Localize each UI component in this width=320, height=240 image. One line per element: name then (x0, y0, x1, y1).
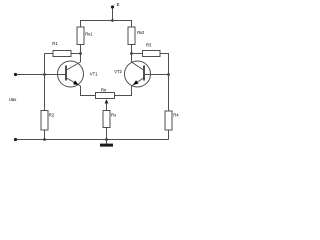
svg-text:R4: R4 (173, 113, 179, 118)
node: input / R1 / R2 junction (43, 73, 46, 76)
node: Rэ bottom junction (105, 138, 108, 141)
ground (100, 140, 113, 147)
svg-text:VT2: VT2 (114, 69, 122, 74)
power terminal -E (111, 2, 120, 8)
wire: top supply rail with corners down to Rk1 and Rk2 (81, 21, 132, 28)
common terminal bottom left (14, 138, 17, 141)
input terminal Uвх (9, 73, 17, 102)
wire: bottom common rail (17, 139, 169, 141)
svg-text:Rк2: Rк2 (137, 30, 145, 35)
svg-text:Rк1: Rк1 (85, 31, 93, 36)
resistor R3 (143, 42, 161, 56)
resistor R1 (52, 41, 71, 57)
wire: VT2 base to right node (145, 74, 169, 76)
node: VT1 collector / R1 junction (79, 52, 82, 55)
svg-text:VT1: VT1 (90, 71, 98, 76)
node: VT2 base / R4 junction (167, 73, 170, 76)
svg-text:Rп: Rп (101, 87, 106, 92)
wire: R4 bottom lead (168, 130, 170, 140)
resistor Rэ (103, 111, 116, 128)
wire: VT2 emitter down and left to Rп (115, 86, 132, 96)
wire: Rк1 bottom to VT1 collector (80, 45, 82, 63)
resistor Rк1 (77, 27, 93, 45)
transistor VT1 (58, 61, 99, 87)
svg-text:Rэ: Rэ (111, 112, 116, 117)
svg-text:R2: R2 (49, 112, 55, 117)
wire: VT1 emitter down and right to Rп (81, 86, 96, 96)
node: top rail junction (111, 19, 114, 22)
resistor Rк2 (128, 27, 145, 45)
svg-text:Uвх: Uвх (9, 97, 17, 102)
wire: R2 bottom lead (44, 130, 46, 140)
svg-text:R3: R3 (146, 42, 152, 47)
wire: Rэ bottom to ground rail (106, 128, 108, 140)
wire: R3 right lead with corner down to R4 (160, 54, 169, 112)
wire: R1 right lead to collector node (71, 53, 81, 55)
wire: Rк2 bottom to VT2 collector (131, 45, 133, 63)
wire: supply stub from terminal to top rail (112, 8, 114, 21)
potentiometer Rп (96, 87, 115, 110)
node: R2 bottom junction (43, 138, 46, 141)
wire: R1 left lead (45, 53, 54, 55)
node: VT2 collector / R3 junction (130, 52, 133, 55)
svg-text:R1: R1 (52, 41, 58, 46)
wire: left node vertical from R1 down to R2 (44, 54, 46, 111)
wire: R3 left lead to collector node (132, 53, 143, 55)
resistor R2 (41, 111, 55, 131)
transistor VT2 (114, 61, 150, 87)
resistor R4 (165, 111, 179, 130)
svg-text:- E: - E (114, 2, 120, 7)
wire: input to VT1 base (17, 74, 66, 76)
